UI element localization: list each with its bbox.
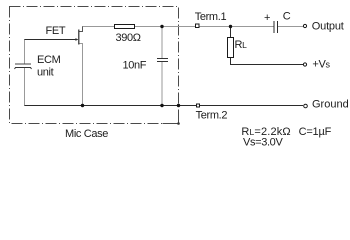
resistor RL body: [228, 38, 234, 58]
transistor FET gate arrow: [75, 38, 78, 41]
wire: ECM capsule upper branch: [24, 40, 26, 65]
wire: FET drain riser: [79, 27, 83, 32]
svg-text:Ground: Ground: [312, 99, 349, 111]
wire: coupling cap to output: [278, 26, 304, 28]
junction dot case corner: [177, 122, 180, 125]
svg-text:Output: Output: [312, 21, 344, 33]
wire: top rail (drain to coupling cap): [82, 26, 274, 28]
svg-text:+Vs: +Vs: [312, 59, 330, 71]
junction dot RL tap: [229, 25, 232, 28]
junction dot 10nF on rail: [160, 104, 163, 107]
wire: ECM capsule lower branch: [24, 68, 26, 106]
resistor 390ohm body: [115, 25, 135, 29]
svg-text:ECM: ECM: [37, 54, 61, 66]
capacitor C left plate: [273, 21, 275, 33]
mic case dash-dot enclosure: [10, 7, 179, 124]
junction dot top of 10nF: [160, 25, 163, 28]
capacitor 10nF bottom plate: [157, 61, 168, 63]
capacitor ECM electret top plate: [15, 63, 31, 65]
transistor FET channel bar: [78, 30, 79, 45]
svg-text:Term.2: Term.2: [196, 110, 228, 122]
capacitor C right plate: [277, 21, 279, 33]
terminal Output circle: [303, 24, 306, 27]
svg-text:+: +: [264, 12, 270, 24]
svg-text:390Ω: 390Ω: [116, 32, 141, 44]
capacitor ECM electret bottom plate: [15, 68, 32, 70]
terminal Ground circle: [304, 104, 308, 108]
terminal +Vs circle: [303, 63, 306, 66]
mic case border corner emphasis: [163, 111, 179, 124]
terminal Term.1 pad: [196, 24, 200, 28]
svg-text:C=1µF: C=1µF: [299, 126, 332, 138]
svg-text:C: C: [283, 11, 291, 23]
junction dot FET source on rail: [81, 104, 84, 107]
svg-text:Term.1: Term.1: [195, 11, 227, 23]
wire: 10nF branch upper: [161, 27, 163, 59]
svg-text:unit: unit: [37, 67, 54, 79]
wire: 10nF branch lower: [161, 62, 163, 106]
svg-text:FET: FET: [46, 25, 66, 37]
wire: bottom ground rail: [24, 105, 303, 107]
wire: RL upper branch: [230, 27, 232, 38]
wire: gate lead from ECM to FET: [24, 39, 78, 41]
wire: FET source drop: [79, 44, 83, 106]
terminal Term.2 pad: [197, 104, 200, 107]
svg-text:Vs=3.0V: Vs=3.0V: [243, 136, 283, 148]
svg-text:RL: RL: [235, 39, 248, 51]
capacitor 10nF top plate: [157, 58, 168, 60]
junction dot case ground: [177, 104, 180, 107]
svg-text:10nF: 10nF: [123, 60, 147, 72]
wire: RL lower branch to +Vs: [231, 58, 304, 65]
svg-text:Mic Case: Mic Case: [65, 128, 108, 140]
